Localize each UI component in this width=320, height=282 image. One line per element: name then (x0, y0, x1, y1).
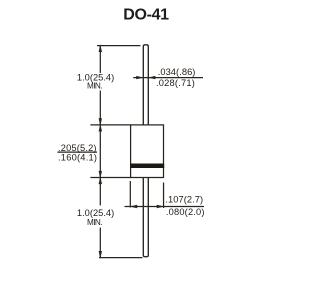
svg-text:.080(2.0): .080(2.0) (166, 207, 205, 217)
svg-text:1.0(25.4): 1.0(25.4) (77, 208, 114, 218)
svg-text:.205(5.2): .205(5.2) (58, 143, 97, 153)
svg-text:DO-41: DO-41 (123, 7, 169, 24)
svg-text:MIN.: MIN. (87, 218, 103, 227)
svg-text:.107(2.7): .107(2.7) (165, 195, 203, 205)
svg-text:.034(.86): .034(.86) (158, 67, 196, 77)
svg-text:.028(.71): .028(.71) (156, 78, 195, 88)
svg-text:MIN.: MIN. (87, 81, 103, 90)
svg-text:.160(4.1): .160(4.1) (58, 153, 97, 163)
